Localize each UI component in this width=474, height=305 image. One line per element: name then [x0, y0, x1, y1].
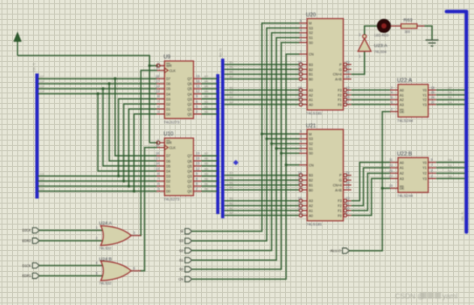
svg-text:A3: A3 [400, 103, 404, 107]
svg-text:Y3: Y3 [422, 103, 426, 107]
svg-text:CN: CN [309, 163, 314, 167]
svg-text:S0: S0 [309, 152, 313, 156]
svg-text:D4: D4 [166, 92, 170, 96]
svg-text:U24:B: U24:B [99, 256, 112, 261]
svg-text:5: 5 [300, 33, 302, 37]
svg-text:F3: F3 [338, 199, 342, 203]
svg-text:D2: D2 [166, 102, 170, 106]
svg-text:10: 10 [346, 96, 350, 100]
svg-text:1: 1 [96, 226, 98, 230]
svg-text:B0: B0 [309, 188, 313, 192]
svg-text:B7: B7 [205, 75, 209, 79]
wire U21 F0 to U22:B A3 [351, 179, 390, 216]
terminal S1 [179, 257, 192, 262]
power terminal (up arrow) [14, 33, 21, 56]
svg-text:74LS181: 74LS181 [306, 111, 323, 116]
svg-text:D5: D5 [166, 87, 170, 91]
wire D2CK to U24:A input 1 [39, 229, 105, 231]
svg-text:300: 300 [405, 30, 411, 34]
svg-text:CN: CN [179, 277, 184, 281]
svg-text:LED-RED: LED-RED [375, 34, 390, 38]
svg-text:8: 8 [157, 95, 159, 99]
svg-text:DE: DE [400, 187, 405, 191]
wire bus to U20 A0 [224, 104, 298, 106]
svg-text:B3: B3 [309, 63, 313, 67]
svg-text:CN+4: CN+4 [333, 183, 342, 187]
svg-text:B0: B0 [230, 211, 234, 215]
svg-text:14: 14 [346, 186, 350, 190]
terminal D2CK [22, 228, 39, 233]
wire bus to U20 B1 [224, 73, 298, 75]
wire U10 Q0 to bus [202, 190, 218, 192]
svg-text:12: 12 [431, 100, 435, 104]
svg-text:F1: F1 [338, 98, 342, 102]
svg-text:A0: A0 [400, 161, 404, 165]
svg-text:19: 19 [389, 184, 393, 188]
svg-text:U23:A: U23:A [374, 43, 388, 49]
junction node C7 [114, 77, 117, 80]
svg-text:B6: B6 [230, 176, 234, 180]
svg-text:A0: A0 [400, 88, 404, 92]
svg-text:2: 2 [300, 100, 302, 104]
junction node C2 [122, 180, 125, 183]
svg-text:EDR1: EDR1 [22, 274, 31, 278]
svg-text:7: 7 [157, 100, 159, 104]
wire U9 Q5 to bus [202, 88, 218, 90]
svg-text:Y1: Y1 [422, 93, 426, 97]
wire S1 terminal to U20/U21 [192, 38, 300, 260]
svg-text:7: 7 [431, 164, 433, 168]
svg-text:A3: A3 [309, 88, 313, 92]
svg-text:20: 20 [298, 176, 302, 180]
svg-text:B5: B5 [205, 162, 209, 166]
svg-text:B3: B3 [230, 197, 234, 201]
svg-text:B5: B5 [230, 181, 234, 185]
svg-text:19: 19 [196, 75, 200, 79]
svg-text:5: 5 [96, 271, 98, 275]
svg-text:yaml: yaml [442, 292, 458, 301]
wire U10 Q3 to bus [202, 175, 218, 177]
wire U22:A Y2 to bus D [436, 99, 464, 101]
svg-text:6: 6 [196, 177, 198, 181]
ALU U20 (74LS181) [298, 19, 351, 110]
junction node ALU-O at U22:B DE [381, 187, 384, 190]
junction node C1 [127, 185, 130, 188]
wire LED to R63 [391, 25, 402, 27]
svg-text:15: 15 [346, 60, 350, 64]
svg-text:B6: B6 [205, 80, 209, 84]
wire bus to U20 A2 [224, 94, 298, 96]
svg-text:74LS32: 74LS32 [99, 282, 111, 286]
junction node C4 [97, 92, 100, 95]
svg-text:Q0: Q0 [187, 112, 192, 116]
svg-text:4: 4 [300, 139, 302, 143]
wire D1CK to U24:B input 1 [39, 265, 105, 267]
wire U10 Q7 to bus [202, 155, 218, 157]
svg-text:U20: U20 [306, 13, 316, 19]
svg-text:D1: D1 [166, 107, 170, 111]
svg-text:A3: A3 [309, 199, 313, 203]
svg-text:A2: A2 [309, 204, 313, 208]
svg-text:17: 17 [346, 176, 350, 180]
svg-text:15: 15 [196, 162, 200, 166]
wire bus to U20 A1 [224, 99, 298, 101]
svg-text:S0: S0 [179, 268, 183, 272]
svg-text:D7: D7 [448, 86, 452, 90]
svg-text:23: 23 [298, 96, 302, 100]
wire U9 Q3 to bus [202, 98, 218, 100]
svg-text:S0: S0 [309, 41, 313, 45]
wire U22:A Y3 to bus D [436, 104, 464, 106]
svg-text:5: 5 [196, 182, 198, 186]
svg-text:8: 8 [391, 100, 393, 104]
wire /ALU-O to U22 DE pins [349, 112, 390, 251]
svg-text:C0: C0 [40, 187, 44, 191]
junction node S3 at U21 [265, 137, 268, 140]
svg-text:21: 21 [298, 91, 302, 95]
buffer U22:A (74LS244) [390, 84, 436, 117]
U24:B pin numbers [96, 261, 136, 275]
svg-text:B5: B5 [230, 70, 234, 74]
svg-text:74LS273: 74LS273 [164, 120, 181, 125]
svg-text:D5: D5 [448, 96, 452, 100]
wire U20 F1 to U22:A A2 [351, 99, 390, 101]
wire WR net: power to U9/U10 WR pins [18, 56, 150, 143]
svg-text:2: 2 [391, 86, 393, 90]
svg-text:C7: C7 [40, 75, 44, 79]
svg-text:D6: D6 [448, 91, 452, 95]
svg-text:Q2: Q2 [187, 179, 192, 183]
svg-text:17: 17 [346, 65, 350, 69]
svg-text:13: 13 [346, 197, 350, 201]
svg-text:G: G [339, 68, 342, 72]
svg-text:13: 13 [389, 164, 393, 168]
svg-text:16: 16 [196, 80, 200, 84]
svg-text:A1: A1 [309, 209, 313, 213]
U24:A pin numbers [96, 226, 136, 240]
svg-text:3: 3 [157, 110, 159, 114]
svg-text:U22:B: U22:B [397, 151, 412, 157]
svg-text:Q0: Q0 [187, 190, 192, 194]
svg-text:Q6: Q6 [187, 82, 192, 86]
svg-text:D1: D1 [448, 169, 452, 173]
svg-text:11: 11 [389, 158, 393, 162]
svg-text:11: 11 [156, 66, 160, 70]
svg-text:D3: D3 [166, 97, 170, 101]
svg-text:2: 2 [96, 236, 98, 240]
svg-text:S3: S3 [309, 137, 313, 141]
junction node S0 at U21 [280, 152, 283, 155]
svg-text:C[0..7]: C[0..7] [32, 63, 36, 72]
svg-text:14: 14 [431, 96, 435, 100]
svg-text:Q1: Q1 [187, 107, 192, 111]
wire U9 Q1 to bus [202, 108, 218, 110]
terminal /ALU-O [330, 248, 349, 253]
wire: U24:B output to U10 CLK [140, 148, 157, 271]
wire R63 to ground [425, 26, 433, 40]
svg-text:G: G [339, 179, 342, 183]
junction node S1 at U21 [275, 147, 278, 150]
svg-text:6: 6 [133, 266, 135, 270]
svg-text:13: 13 [346, 86, 350, 90]
svg-text:B1: B1 [205, 182, 209, 186]
svg-text:9: 9 [196, 95, 198, 99]
svg-text:17: 17 [155, 157, 159, 161]
svg-text:U22:A: U22:A [397, 78, 412, 84]
svg-text:D0: D0 [448, 174, 452, 178]
svg-text:B1: B1 [309, 183, 313, 187]
svg-text:U10: U10 [164, 132, 174, 138]
terminal EDR1 [22, 273, 39, 278]
svg-text:D6: D6 [166, 159, 170, 163]
wire U9 Q6 to bus [202, 83, 218, 85]
svg-text:F3: F3 [338, 88, 342, 92]
svg-text:4: 4 [391, 91, 393, 95]
svg-text:5: 5 [431, 169, 433, 173]
wire U10 Q1 to bus [202, 185, 218, 187]
svg-text:D3: D3 [448, 158, 452, 162]
svg-text:B0: B0 [205, 110, 209, 114]
svg-text:74LS244: 74LS244 [397, 118, 414, 123]
svg-text:9: 9 [346, 211, 348, 215]
svg-text:F2: F2 [338, 93, 342, 97]
svg-text:14: 14 [155, 85, 159, 89]
wire bus to U21 B1 [224, 184, 298, 186]
svg-text:Y2: Y2 [422, 172, 426, 176]
OR gate U24:A (74LS32) [101, 226, 141, 246]
svg-text:22: 22 [298, 70, 302, 74]
svg-text:D4: D4 [166, 169, 170, 173]
svg-text:17: 17 [389, 174, 393, 178]
svg-text:11: 11 [346, 201, 350, 205]
svg-text:D2: D2 [166, 179, 170, 183]
svg-text:B0: B0 [230, 100, 234, 104]
ALU U21 (74LS181) [298, 129, 351, 220]
svg-text:2: 2 [196, 187, 198, 191]
buffer U22:B (74LS244) [389, 158, 436, 193]
svg-text:M: M [309, 22, 312, 26]
svg-text:B3: B3 [205, 172, 209, 176]
wire U21 F2 to U22:B A1 [351, 168, 390, 206]
wire U10 Q4 to bus [202, 170, 218, 172]
svg-text:S1: S1 [309, 36, 313, 40]
svg-text:A0: A0 [309, 103, 313, 107]
svg-text:B2: B2 [230, 201, 234, 205]
svg-text:1: 1 [300, 75, 302, 79]
svg-text:C3: C3 [40, 172, 44, 176]
svg-text:Q1: Q1 [187, 185, 192, 189]
svg-text:16: 16 [196, 157, 200, 161]
register U10 (74LS273) [155, 138, 201, 196]
svg-text:CLK: CLK [169, 69, 176, 73]
wire bus to U20 B0 [224, 78, 298, 80]
wire U22:B Y0 to bus D [436, 161, 464, 163]
svg-text:Q3: Q3 [187, 97, 192, 101]
wire bus to U21 B2 [224, 179, 298, 181]
junction node CN at U21 [285, 164, 288, 167]
svg-text:Y0: Y0 [422, 161, 426, 165]
svg-text:9: 9 [431, 158, 433, 162]
svg-text:B0: B0 [309, 77, 313, 81]
wire U22:A Y1 to bus D [436, 94, 464, 96]
svg-text:F0: F0 [338, 214, 342, 218]
svg-text:15: 15 [196, 85, 200, 89]
svg-text:B2: B2 [309, 68, 313, 72]
svg-text:B3: B3 [205, 95, 209, 99]
svg-text:9: 9 [196, 172, 198, 176]
wire U9 Q0 to bus [202, 113, 218, 115]
wire U9 Q4 to bus [202, 93, 218, 95]
wire C2 : bus to U10 D2 and U9 D2 [38, 180, 157, 182]
svg-text:A0: A0 [309, 214, 313, 218]
terminal EDR2 [22, 238, 39, 243]
wire CN terminal to U20/U21 [192, 54, 300, 279]
svg-text:D7: D7 [166, 77, 170, 81]
terminal S3 [179, 238, 192, 243]
wire S2 terminal to U20/U21 [192, 33, 300, 251]
svg-text:7: 7 [300, 50, 302, 54]
terminal CN [179, 276, 192, 281]
svg-text:Q4: Q4 [187, 92, 192, 96]
bus C[0..7] vertical (left) [35, 74, 38, 199]
svg-text:14: 14 [155, 162, 159, 166]
svg-text:B6: B6 [230, 65, 234, 69]
svg-text:EDR2: EDR2 [22, 239, 31, 243]
wire U9 Q7 to bus [202, 78, 218, 80]
svg-text:B5: B5 [205, 85, 209, 89]
wire U22:B Y2 to bus D [436, 172, 464, 174]
wire bus to U20 B2 [224, 68, 298, 70]
wire C7 : bus to U9 D7 and U10 D7 [38, 78, 157, 80]
junction node S2 at U21 [270, 142, 273, 145]
svg-text:/ALU-O: /ALU-O [330, 249, 341, 253]
svg-text:F0: F0 [338, 103, 342, 107]
svg-text:F1: F1 [338, 209, 342, 213]
bus D[0..7] (right) [447, 12, 467, 233]
svg-text:S1: S1 [179, 258, 183, 262]
svg-text:74LS04: 74LS04 [374, 50, 386, 54]
wire U9 Q2 to bus [202, 103, 218, 105]
wire bus to U21 A2 [224, 205, 298, 207]
terminal S0 [179, 267, 192, 272]
svg-text:B1: B1 [205, 105, 209, 109]
svg-text:B1: B1 [309, 73, 313, 77]
wire C6 : bus to U9 D6 and U10 D6 [38, 83, 157, 85]
svg-text:19: 19 [298, 197, 302, 201]
svg-text:S3: S3 [179, 239, 183, 243]
svg-text:Q3: Q3 [187, 174, 192, 178]
svg-text:D5: D5 [166, 164, 170, 168]
wire: U24:A output to U9 CLK [140, 70, 157, 235]
svg-text:18: 18 [155, 152, 159, 156]
svg-text:F2: F2 [338, 204, 342, 208]
node marker (blue diamond) [233, 160, 238, 165]
ground [426, 40, 439, 46]
wire U22:B Y1 to bus D [436, 167, 464, 169]
svg-text:U21: U21 [306, 123, 316, 129]
svg-text:B4: B4 [205, 90, 209, 94]
svg-text:Q4: Q4 [187, 169, 192, 173]
svg-text:2: 2 [196, 110, 198, 114]
svg-text:15: 15 [346, 171, 350, 175]
svg-text:8: 8 [300, 130, 302, 134]
svg-text:CN: CN [309, 53, 314, 57]
svg-text:B0: B0 [205, 187, 209, 191]
svg-text:18: 18 [155, 75, 159, 79]
svg-text:D1: D1 [166, 185, 170, 189]
svg-text:19: 19 [298, 86, 302, 90]
svg-text:6: 6 [300, 149, 302, 153]
svg-text:D2CK: D2CK [22, 229, 32, 233]
wire bus to U20 A3 [224, 89, 298, 91]
register U9 (74LS273) [155, 61, 201, 119]
svg-text:A2: A2 [400, 172, 404, 176]
svg-text:B7: B7 [205, 152, 209, 156]
svg-text:U9: U9 [164, 55, 171, 61]
svg-text:B6: B6 [205, 157, 209, 161]
junction node C6 [108, 82, 111, 85]
svg-text:11: 11 [156, 143, 160, 147]
svg-text:B4: B4 [230, 186, 234, 190]
svg-text:8: 8 [300, 19, 302, 23]
svg-text:Q7: Q7 [187, 77, 192, 81]
svg-text:C1: C1 [40, 182, 44, 186]
svg-text:DE: DE [400, 110, 405, 114]
wire U21 F1 to U22:B A2 [351, 173, 390, 210]
svg-text:5: 5 [300, 144, 302, 148]
svg-text:D2: D2 [448, 164, 452, 168]
svg-text:D4: D4 [448, 100, 452, 104]
svg-text:B2: B2 [205, 177, 209, 181]
svg-text:3: 3 [157, 187, 159, 191]
junction node C5 [102, 87, 105, 90]
wire U10 Q2 to bus [202, 180, 218, 182]
svg-text:3: 3 [431, 174, 433, 178]
svg-text:B2: B2 [205, 100, 209, 104]
svg-text:13: 13 [155, 167, 159, 171]
junction node C0 [133, 190, 136, 193]
svg-text:7: 7 [300, 161, 302, 165]
wire bus to U20 B3 [224, 64, 298, 66]
svg-text:5: 5 [196, 105, 198, 109]
svg-text:16: 16 [346, 70, 350, 74]
wire M terminal to U20/U21 [192, 23, 300, 231]
svg-text:S2: S2 [179, 249, 183, 253]
wire U20 F0 to U22:A A3 [351, 104, 390, 106]
terminal D1CK [22, 263, 39, 268]
svg-text:D0: D0 [166, 112, 170, 116]
svg-text:19: 19 [196, 152, 200, 156]
svg-text:74LS181: 74LS181 [306, 221, 323, 226]
svg-text:4: 4 [157, 105, 159, 109]
svg-text:A2: A2 [309, 93, 313, 97]
wire U20 CN+4 to U23:A input [351, 51, 364, 74]
svg-text:A2: A2 [400, 98, 404, 102]
svg-text:21: 21 [298, 201, 302, 205]
wire U22:A Y0 to bus D [436, 89, 464, 91]
watermark CSDN [395, 292, 458, 301]
svg-text:A3: A3 [400, 177, 404, 181]
svg-text:8: 8 [157, 172, 159, 176]
svg-text:A1: A1 [309, 98, 313, 102]
bus A (middle left vertical) [216, 74, 219, 214]
svg-text:A1: A1 [400, 166, 404, 170]
svg-text:M: M [181, 230, 184, 234]
svg-text:CSDN @: CSDN @ [395, 292, 425, 301]
resistor R63 [401, 24, 425, 29]
inverter U23:A (74LS04) [358, 35, 371, 52]
svg-text:A1: A1 [400, 93, 404, 97]
